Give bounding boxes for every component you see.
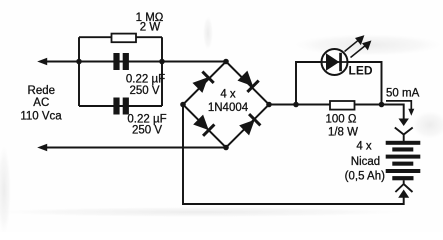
diode D4 (bridge lower-right) xyxy=(238,114,260,136)
LED D5 wire through xyxy=(322,61,348,63)
svg-text:AC: AC xyxy=(33,97,49,109)
wire AC line 1 (upper mains lead to bridge top) xyxy=(46,61,227,63)
wire bridge diamond xyxy=(183,62,269,148)
wire RC network top (resistor branch) xyxy=(79,36,162,38)
svg-text:250 V: 250 V xyxy=(129,85,159,97)
connector female top (chevron to battery) xyxy=(395,128,413,142)
node bridge left xyxy=(180,102,186,108)
svg-text:Rede: Rede xyxy=(28,85,56,97)
wire RC network left vertical xyxy=(78,37,80,106)
svg-text:4 x: 4 x xyxy=(220,89,236,101)
svg-text:4 x: 4 x xyxy=(356,141,372,153)
node bridge top xyxy=(223,59,229,65)
svg-text:100 Ω: 100 Ω xyxy=(326,113,357,125)
wire RC network bottom (capacitor C2 branch) xyxy=(79,105,162,107)
node LED branch right junction xyxy=(379,102,385,108)
diode D3 (bridge lower-left) xyxy=(192,114,214,136)
LED D5 circle xyxy=(322,49,348,75)
diode D1 (bridge upper-left) xyxy=(192,72,214,94)
capacitor C2 plates xyxy=(113,98,128,115)
current arrow 50 mA xyxy=(386,101,414,116)
svg-text:(0,5 Ah): (0,5 Ah) xyxy=(345,171,385,183)
node bridge right xyxy=(266,102,272,108)
LED light arrow 2 xyxy=(351,42,371,58)
connector male pin bottom (return plug, up arrow) xyxy=(398,190,409,198)
battery BT1 4x Nicad bars xyxy=(386,141,421,181)
svg-text:50 mA: 50 mA xyxy=(386,88,420,100)
LED D5 triangle xyxy=(326,53,339,71)
node LED branch left junction xyxy=(293,102,299,108)
svg-text:1/8 W: 1/8 W xyxy=(328,127,358,139)
LED light arrow 1 xyxy=(345,36,364,51)
connector female bottom (chevron from battery) xyxy=(395,180,412,192)
wire negative rail (bridge left node down and along bottom) xyxy=(183,105,404,205)
wire positive rail (bridge right node to output corner) xyxy=(269,105,404,120)
capacitor C1 plates xyxy=(113,53,128,70)
svg-text:0.22 µF: 0.22 µF xyxy=(126,74,165,86)
wire RC network right vertical xyxy=(161,37,163,106)
svg-text:250 V: 250 V xyxy=(132,125,162,137)
node B junction (RC right / AC line 1) xyxy=(159,59,165,65)
wire LED branch xyxy=(296,62,382,105)
svg-text:2 W: 2 W xyxy=(140,22,161,34)
svg-text:110 Vca: 110 Vca xyxy=(20,111,62,123)
wire AC line 2 (lower mains lead to bridge bottom) xyxy=(46,147,227,149)
svg-text:LED: LED xyxy=(349,64,373,78)
arrowhead AC line 2 xyxy=(37,144,47,152)
svg-text:Nicad: Nicad xyxy=(351,156,380,168)
diode D2 (bridge upper-right) xyxy=(237,70,259,92)
connector male pin top (output plug, down arrow) xyxy=(399,119,409,127)
resistor R2 100 ohm body xyxy=(330,101,355,110)
svg-text:1N4004: 1N4004 xyxy=(208,102,249,114)
node A junction (RC left / AC line 1) xyxy=(76,59,82,65)
arrowhead AC line 1 xyxy=(37,58,47,66)
LED D5 cathode bar xyxy=(339,53,342,71)
resistor R1 1 Mohm body xyxy=(112,34,137,43)
node bridge bottom xyxy=(223,145,229,151)
